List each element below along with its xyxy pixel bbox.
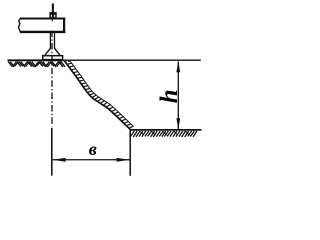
svg-text:в: в: [89, 139, 97, 159]
svg-text:h: h: [156, 89, 183, 103]
